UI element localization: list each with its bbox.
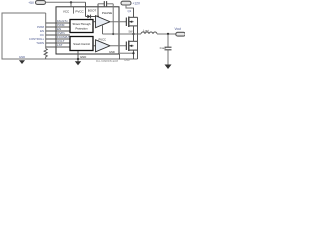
svg-text:Q1: Q1	[128, 9, 132, 13]
transistor Q1	[126, 8, 137, 34]
node junction gnd rail	[77, 58, 79, 60]
port oval VOUT	[176, 32, 186, 36]
wire +5V rail	[46, 1, 86, 3]
svg-text:VCC: VCC	[63, 9, 70, 13]
svg-text:SW: SW	[128, 29, 133, 33]
pin label PHASE	[102, 11, 112, 15]
wire BOOT riser	[97, 4, 99, 17]
port oval +12V	[121, 1, 131, 5]
node Q1 label	[128, 9, 132, 13]
wire GND internal	[77, 51, 79, 62]
svg-text:Vout: Vout	[175, 27, 181, 31]
separator line	[73, 7, 75, 14]
wire PGND stub	[119, 52, 134, 54]
wire VIN drop	[126, 5, 134, 17]
wire driver return	[102, 26, 104, 35]
inductor LOUT	[141, 28, 157, 34]
capacitor COUT	[160, 34, 172, 65]
svg-text:PHASE: PHASE	[102, 11, 112, 15]
node +12V label	[133, 2, 141, 6]
pin label row5	[57, 39, 65, 43]
wire vout	[157, 33, 176, 35]
node +5V label	[28, 1, 35, 5]
node SW label	[128, 29, 133, 33]
svg-text:Shoot-Through: Shoot-Through	[73, 22, 91, 26]
pin label BOOT	[88, 9, 97, 13]
ground arrow left	[19, 60, 25, 64]
svg-text:+5V: +5V	[28, 1, 35, 5]
pin label GND	[80, 55, 86, 59]
capacitor CBOOT	[98, 1, 113, 6]
svg-text:Cout: Cout	[160, 46, 167, 50]
pin label row4	[57, 35, 70, 39]
net label OC blue	[40, 33, 44, 37]
node junction phase-drop	[112, 33, 114, 35]
net label GND left blue	[19, 55, 25, 59]
pin label PWM	[57, 23, 65, 27]
wire pin row 1	[46, 22, 70, 24]
wire UGATE	[110, 21, 126, 23]
node junction q2 source	[132, 52, 134, 54]
pin label GND inside	[109, 50, 115, 54]
wire pin row 3	[46, 30, 70, 32]
op-amp upper gate driver	[93, 16, 110, 28]
ground arrow center	[75, 61, 81, 65]
part number text	[96, 59, 118, 63]
wire secondary rail	[137, 17, 139, 59]
node PGND label	[124, 59, 130, 62]
block shoot-through protection	[70, 20, 93, 33]
svg-text:GND: GND	[80, 55, 86, 59]
node junction VCC	[70, 1, 72, 3]
svg-text:+12V: +12V	[133, 2, 141, 6]
wire IC gnd drop right	[119, 54, 121, 60]
svg-text:PVCC: PVCC	[99, 38, 107, 42]
IC U1 outline	[56, 7, 119, 54]
op-amp lower gate driver	[93, 40, 110, 52]
svg-text:DA-9098FB-E08: DA-9098FB-E08	[96, 59, 118, 63]
transistor Q2	[126, 34, 137, 59]
wire LGATE	[110, 45, 126, 47]
pin label FAULT	[57, 19, 68, 23]
node junction boot-diode	[97, 16, 99, 18]
svg-text:THDN: THDN	[36, 41, 44, 45]
svg-text:Smart Control: Smart Control	[73, 42, 90, 46]
wire pin row 6	[46, 46, 70, 48]
svg-text:BOOT: BOOT	[88, 9, 97, 13]
ground arrow right	[165, 65, 172, 70]
pin label PVCC lower	[99, 38, 107, 42]
wire EN loop left	[2, 13, 138, 59]
wire PVCC drop	[85, 2, 87, 16]
port oval +5V	[36, 1, 46, 5]
wire left pin bus	[45, 13, 47, 49]
svg-text:PVCC: PVCC	[75, 9, 84, 13]
pin label EN	[57, 27, 61, 31]
resistor R1	[44, 49, 47, 60]
svg-text:GND: GND	[109, 50, 115, 54]
node junction phase	[132, 33, 134, 35]
wire VCC drop	[70, 2, 72, 7]
pin label row3b	[57, 31, 65, 35]
wire pin row 4	[46, 38, 70, 40]
svg-text:GND: GND	[19, 55, 25, 59]
pin label VCC	[63, 9, 70, 13]
wire pin row 3b	[46, 34, 70, 36]
node junction cout	[167, 33, 169, 35]
wire pin row 5	[46, 42, 70, 44]
node Vout label	[175, 27, 181, 31]
net label THDN blue	[36, 41, 44, 45]
net label EN blue	[40, 29, 44, 33]
wire PHASE drop	[112, 4, 114, 34]
block smart control	[70, 37, 93, 51]
diode D1	[86, 15, 99, 19]
net label CONTROL blue	[29, 37, 45, 41]
wire driver supply	[97, 17, 99, 19]
svg-text:Protection: Protection	[75, 26, 88, 30]
pin label row6	[57, 43, 63, 47]
svg-text:GND: GND	[124, 59, 130, 62]
net label PWM blue	[37, 25, 45, 29]
pin label PVCC	[75, 9, 84, 13]
wire pin row 2	[46, 26, 70, 28]
wire phase horizontal	[103, 33, 142, 35]
